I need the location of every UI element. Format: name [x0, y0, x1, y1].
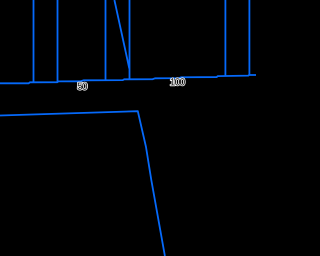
- wire v2: [57, 0, 59, 82]
- label 100: [170, 78, 184, 85]
- wire d1 diagonal: [114, 0, 129, 69]
- wire road2 lower: [0, 111, 165, 256]
- wire v4: [129, 0, 131, 79]
- wire v1: [33, 0, 35, 82]
- wire v6: [248, 0, 250, 75]
- wire v3: [105, 0, 107, 80]
- wire v5: [224, 0, 226, 76]
- wire road1 main: [0, 75, 256, 83]
- label 50: [78, 83, 88, 90]
